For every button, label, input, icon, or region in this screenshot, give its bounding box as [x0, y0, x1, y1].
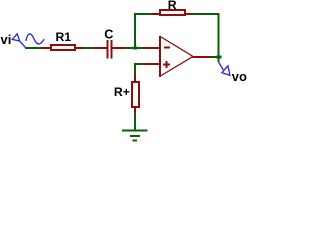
svg-text:R: R	[168, 0, 177, 12]
wire feedback top right	[194, 13, 220, 15]
svg-text:C: C	[104, 28, 113, 42]
svg-text:R1: R1	[56, 30, 72, 44]
wire R+ to ground	[134, 113, 136, 130]
svg-text:vi: vi	[1, 32, 12, 47]
capacitor C right plate	[111, 40, 113, 59]
resistor R+ pin bottom	[134, 107, 136, 114]
ground	[122, 130, 148, 132]
capacitor C pin right	[113, 47, 127, 49]
input annotation sine wave	[26, 34, 44, 44]
op-amp U1 inverting pin	[143, 47, 160, 49]
output annotation arrow vo	[219, 62, 224, 70]
wire R1 to C	[85, 47, 93, 49]
input annotation arrow vi	[12, 34, 19, 41]
resistor R1 pin left	[41, 47, 51, 49]
wire C to inverting node	[127, 47, 144, 49]
resistor R body	[160, 10, 185, 15]
svg-text:R+: R+	[114, 85, 130, 99]
wire vi input segment	[25, 47, 41, 49]
svg-text:vo: vo	[232, 69, 247, 84]
op-amp U1 noninverting pin	[143, 63, 160, 65]
op-amp U1 triangle	[160, 36, 192, 76]
resistor R1 body	[51, 45, 75, 50]
junction at inverting node	[134, 47, 138, 50]
op-amp U1 output pin	[193, 56, 211, 58]
wire feedback left vertical	[134, 13, 136, 49]
resistor R pin left	[151, 13, 160, 15]
resistor R+ pin top	[134, 75, 136, 82]
capacitor C left plate	[107, 40, 109, 59]
junction at output node	[217, 56, 222, 59]
wire feedback top left	[134, 13, 152, 15]
resistor R pin right	[185, 13, 194, 15]
resistor R1 pin right	[75, 47, 85, 49]
wire feedback right vertical	[218, 13, 220, 62]
op-amp U1 plus mark	[163, 61, 170, 68]
capacitor C pin left	[93, 47, 108, 49]
wire noninverting horizontal	[134, 63, 143, 65]
wire output to feedback	[211, 56, 218, 58]
wire noninverting vertical to R+	[134, 63, 136, 76]
op-amp U1 minus mark	[164, 47, 170, 49]
resistor R+ body	[132, 82, 139, 107]
